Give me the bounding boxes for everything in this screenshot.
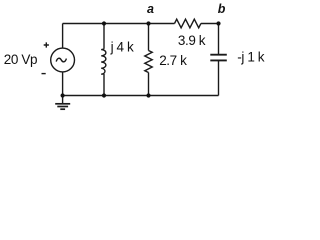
- junction dot: source bottom / ground: [61, 93, 65, 97]
- ground stub: [62, 96, 64, 104]
- ground bar 1: [55, 103, 70, 105]
- ground bar 3: [60, 108, 65, 110]
- ground bar 2: [57, 106, 68, 108]
- wire: source top lead: [62, 24, 64, 49]
- AC voltage source 20 Vp (circle): [51, 48, 75, 72]
- wire: source bottom lead: [62, 72, 64, 96]
- source minus sign: [42, 73, 46, 75]
- wire: resistor 2.7k bottom lead: [148, 73, 150, 96]
- wire: capacitor bottom lead: [218, 60, 220, 95]
- wire: node b down to capacitor: [218, 24, 220, 55]
- wire: resistor 2.7k top lead: [148, 24, 150, 51]
- wire bottom rail: [63, 95, 219, 97]
- resistor R 2.7 k (vertical zigzag): [145, 51, 152, 73]
- wire top: source to node a: [63, 23, 175, 25]
- wire: inductor bottom lead: [103, 74, 105, 95]
- capacitor C -j1k top plate: [210, 54, 227, 56]
- junction dot: resistor 2.7k bottom: [146, 93, 150, 97]
- wire: inductor top lead: [103, 24, 105, 49]
- AC source sine wave: [56, 58, 66, 62]
- capacitor C -j1k bottom plate: [210, 59, 227, 61]
- source plus sign: [44, 42, 49, 47]
- svg-text:3.9 k: 3.9 k: [178, 33, 206, 48]
- svg-text:-j 1 k: -j 1 k: [237, 50, 265, 65]
- inductor L j4k coil: [101, 48, 106, 74]
- wire: resistor to node b: [201, 23, 219, 25]
- svg-text:j 4 k: j 4 k: [110, 39, 134, 54]
- svg-text:2.7 k: 2.7 k: [159, 53, 187, 68]
- svg-text:b: b: [218, 2, 226, 16]
- svg-text:20 Vp: 20 Vp: [4, 52, 37, 67]
- node b junction dot: [216, 21, 220, 25]
- svg-text:a: a: [147, 2, 154, 16]
- junction dot: inductor bottom: [102, 93, 106, 97]
- junction dot: inductor top: [102, 21, 106, 25]
- node a junction dot: [146, 21, 150, 25]
- resistor R 3.9 k (between node a and node b): [175, 19, 201, 28]
